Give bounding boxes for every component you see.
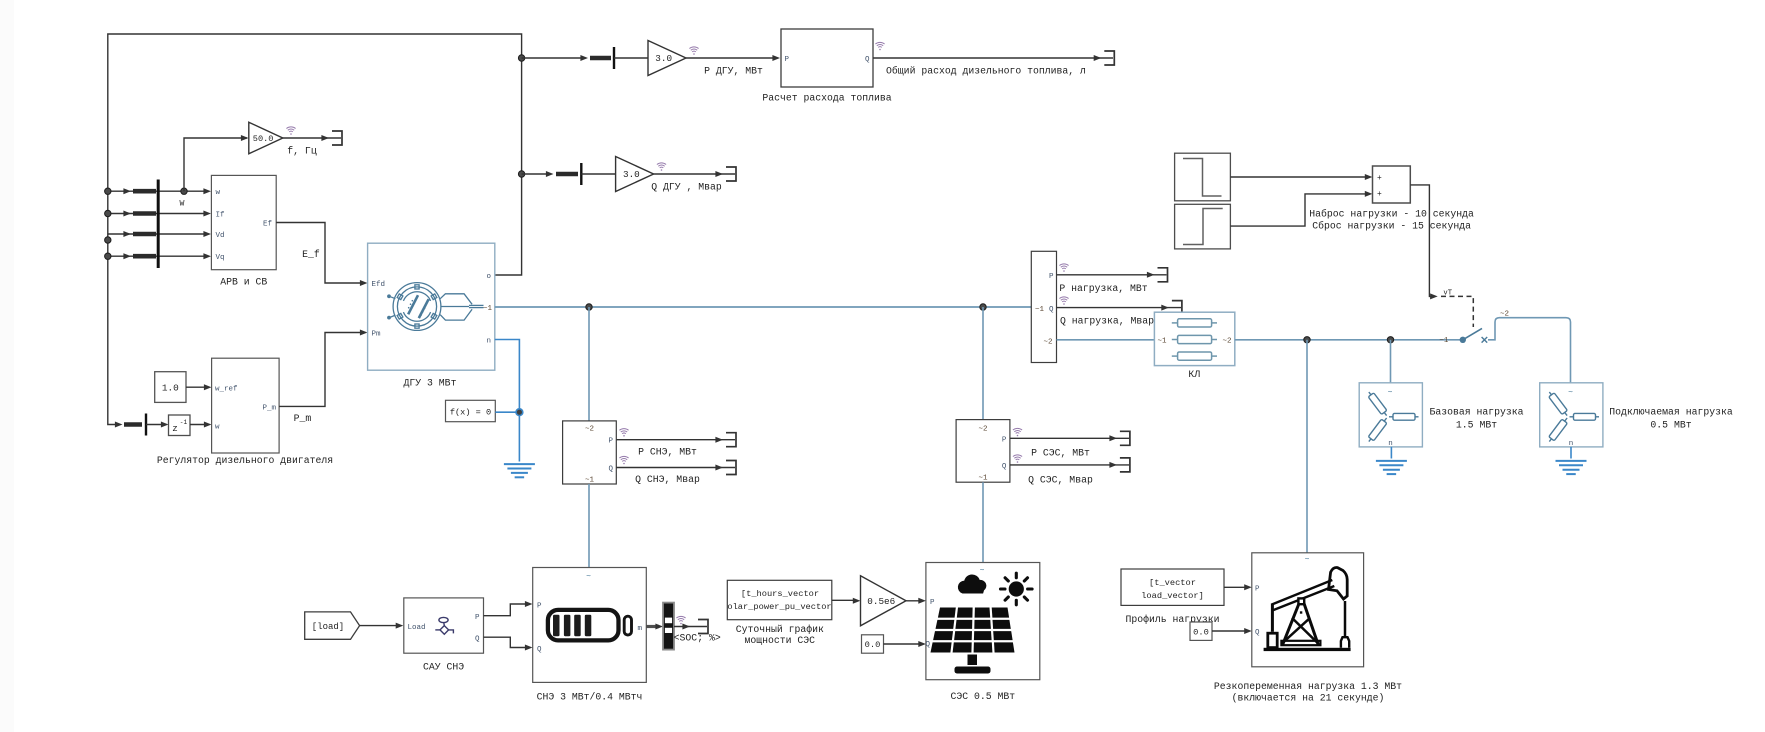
svg-text:~1: ~1 — [585, 476, 595, 484]
svg-text:W: W — [180, 200, 185, 209]
svg-text:w: w — [215, 423, 220, 431]
svg-text:olar_power_pu_vector: olar_power_pu_vector — [727, 602, 831, 612]
svg-text:АРВ и СВ: АРВ и СВ — [220, 277, 267, 288]
svg-text:P: P — [1049, 273, 1054, 281]
svg-text:[t_hours_vector: [t_hours_vector — [741, 589, 819, 599]
svg-text:Vq: Vq — [216, 254, 225, 262]
svg-text:load_vector]: load_vector] — [1141, 591, 1204, 601]
svg-text:+: + — [1377, 190, 1382, 199]
svg-text:P: P — [608, 438, 613, 446]
svg-text:Суточный график: Суточный график — [736, 624, 824, 635]
svg-text:Q СЭС, Мвар: Q СЭС, Мвар — [1028, 475, 1093, 486]
svg-text:m: m — [637, 625, 642, 633]
svg-text:P: P — [930, 599, 935, 607]
svg-text:Vd: Vd — [216, 232, 225, 240]
svg-text:Load: Load — [408, 624, 426, 632]
svg-text:[load]: [load] — [312, 622, 344, 632]
svg-text:P: P — [1255, 585, 1260, 593]
svg-text:-1: -1 — [180, 419, 188, 426]
svg-text:w: w — [216, 189, 221, 197]
svg-text:Р СНЭ, МВт: Р СНЭ, МВт — [638, 446, 697, 457]
svg-text:~1: ~1 — [978, 474, 988, 482]
svg-text:~: ~ — [586, 573, 591, 582]
svg-text:~: ~ — [1568, 388, 1573, 397]
svg-text:Q: Q — [475, 636, 480, 644]
svg-text:1.5 МВт: 1.5 МВт — [1456, 419, 1497, 430]
svg-text:Базовая нагрузка: Базовая нагрузка — [1429, 407, 1523, 418]
svg-text:50.0: 50.0 — [253, 134, 274, 144]
svg-text:Q: Q — [865, 56, 870, 64]
svg-text:0.0: 0.0 — [1193, 627, 1209, 637]
svg-text:Q: Q — [537, 646, 542, 654]
svg-text:~2: ~2 — [1500, 311, 1509, 319]
svg-text:Q: Q — [925, 641, 930, 649]
svg-text:n: n — [1388, 440, 1393, 448]
svg-text:ДГУ 3 МВт: ДГУ 3 МВт — [404, 377, 457, 388]
svg-text:~1: ~1 — [1035, 306, 1045, 314]
svg-text:~2: ~2 — [1222, 337, 1231, 345]
svg-text:z: z — [172, 423, 178, 434]
svg-text:КЛ: КЛ — [1188, 369, 1200, 380]
svg-text:САУ СНЭ: САУ СНЭ — [423, 662, 464, 673]
svg-text:~: ~ — [1305, 556, 1310, 565]
svg-text:Q СНЭ, Мвар: Q СНЭ, Мвар — [635, 474, 700, 485]
svg-text:Pm: Pm — [372, 331, 382, 339]
svg-text:1.0: 1.0 — [162, 383, 179, 394]
svg-text:Наброс нагрузки - 10 секунда: Наброс нагрузки - 10 секунда — [1309, 209, 1474, 220]
svg-text:Общий расход дизельного топлив: Общий расход дизельного топлива, л — [886, 66, 1086, 77]
svg-text:Регулятор дизельного двигателя: Регулятор дизельного двигателя — [157, 455, 333, 466]
svg-text:E_f: E_f — [302, 249, 320, 260]
svg-text:Р нагрузка, МВт: Р нагрузка, МВт — [1059, 283, 1147, 294]
svg-text:f, Гц: f, Гц — [287, 146, 317, 157]
svg-text:СЭС 0.5 МВт: СЭС 0.5 МВт — [950, 691, 1015, 702]
svg-text:[t_vector: [t_vector — [1149, 578, 1196, 588]
svg-text:Q: Q — [1049, 306, 1054, 314]
svg-text:P: P — [785, 56, 790, 64]
svg-text:w_ref: w_ref — [215, 385, 238, 393]
svg-text:3.0: 3.0 — [655, 53, 672, 64]
svg-text:Ef: Ef — [263, 221, 273, 229]
svg-text:0.5 МВт: 0.5 МВт — [1650, 419, 1691, 430]
svg-text:Резкопеременная нагрузка 1.3 М: Резкопеременная нагрузка 1.3 МВт — [1214, 681, 1402, 692]
svg-text:n: n — [1569, 440, 1574, 448]
svg-text:Q: Q — [608, 466, 613, 474]
svg-text:P_m: P_m — [262, 405, 276, 413]
svg-text:~2: ~2 — [978, 425, 987, 433]
svg-text:3.0: 3.0 — [623, 169, 640, 180]
svg-text:~2: ~2 — [1043, 338, 1052, 346]
svg-text:f(x) = 0: f(x) = 0 — [450, 408, 491, 418]
svg-text:P_m: P_m — [294, 413, 312, 424]
svg-text:P: P — [537, 602, 542, 610]
svg-text:P: P — [1002, 436, 1007, 444]
svg-text:Q: Q — [1255, 629, 1260, 637]
svg-text:СНЭ 3 МВт/0.4 МВтч: СНЭ 3 МВт/0.4 МВтч — [537, 692, 643, 703]
svg-text:~1: ~1 — [1158, 337, 1168, 345]
svg-text:Сброс нагрузки - 15 секунда: Сброс нагрузки - 15 секунда — [1312, 220, 1471, 231]
svg-text:n: n — [486, 338, 491, 346]
svg-text:~2: ~2 — [585, 426, 594, 434]
svg-text:мощности СЭС: мощности СЭС — [745, 635, 816, 646]
svg-text:Q нагрузка, Мвар: Q нагрузка, Мвар — [1060, 316, 1154, 327]
svg-text:Q ДГУ , Мвар: Q ДГУ , Мвар — [651, 182, 722, 193]
svg-text:Р ДГУ, МВт: Р ДГУ, МВт — [704, 66, 763, 77]
svg-text:~: ~ — [980, 567, 985, 576]
svg-text:Q: Q — [1002, 463, 1007, 471]
svg-text:(включается на 21 секунде): (включается на 21 секунде) — [1232, 693, 1385, 704]
svg-text:0.5e6: 0.5e6 — [867, 596, 895, 607]
svg-text:Efd: Efd — [372, 281, 386, 289]
svg-text:~1: ~1 — [1439, 337, 1449, 345]
svg-text:~: ~ — [1388, 388, 1393, 397]
svg-text:<SOC; %>: <SOC; %> — [674, 633, 721, 644]
svg-text:0.0: 0.0 — [865, 640, 881, 650]
svg-text:~1: ~1 — [483, 305, 493, 313]
svg-text:P: P — [475, 614, 480, 622]
svg-text:Р СЭС, МВт: Р СЭС, МВт — [1031, 448, 1090, 459]
svg-text:o: o — [486, 273, 491, 281]
svg-text:If: If — [216, 212, 226, 220]
svg-text:Расчет расхода топлива: Расчет расхода топлива — [762, 93, 891, 104]
svg-text:+: + — [1377, 174, 1382, 183]
svg-text:Подключаемая нагрузка: Подключаемая нагрузка — [1609, 407, 1733, 418]
